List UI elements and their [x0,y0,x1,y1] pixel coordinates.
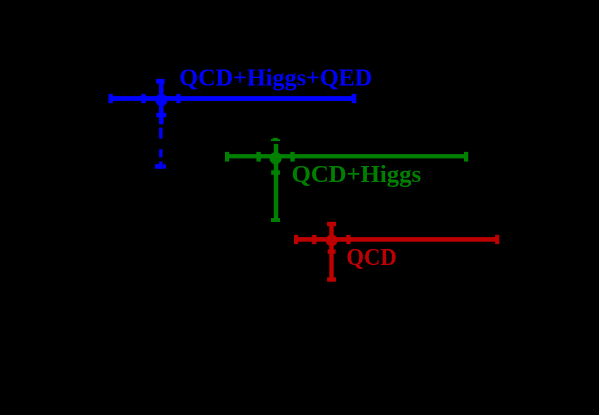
svg-text:QCD+Higgs+QED: QCD+Higgs+QED [179,66,372,92]
svg-text:QCD: QCD [346,245,396,271]
svg-text:QCD+Higgs: QCD+Higgs [292,162,422,188]
